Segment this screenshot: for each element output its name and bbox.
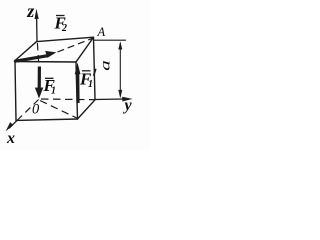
force F2 arrow (along top-face diagonal toward A): [15, 51, 57, 61]
x-axis arrow part: [6, 120, 18, 132]
z-axis: [35, 9, 39, 41]
label F1 with overbar: [43, 76, 57, 97]
svg-text:a: a: [97, 60, 113, 71]
svg-text:1: 1: [88, 79, 93, 90]
cube hidden rear-left vertical edge (dashed): [37, 43, 38, 66]
line of action of F2 toward A (dashed): [58, 38, 93, 52]
y-axis arrow part: [95, 97, 133, 102]
svg-text:A: A: [97, 25, 106, 39]
label F1' with overbar and prime: [79, 69, 96, 90]
label F2 with overbar: [54, 13, 68, 34]
x-axis hidden part inside cube (dashed): [18, 100, 39, 120]
cube rear-right vertical edge: [94, 38, 96, 100]
cube front-bottom edge: [16, 119, 78, 120]
cube front-top edge: [15, 61, 77, 64]
dimension line a (vertical, arrows both ends): [118, 41, 122, 98]
cube front-right vertical edge: [76, 62, 78, 119]
force F1' arrow (up, at front-top-right corner): [75, 63, 81, 104]
svg-text:x: x: [6, 130, 15, 147]
svg-text:y: y: [123, 97, 133, 114]
cube hidden rear-bottom edge / y-axis hidden part (dashed): [41, 98, 95, 101]
cube top-right edge: [76, 37, 94, 62]
cube bottom-right edge: [78, 100, 96, 119]
force F1 arrow (down, applied at O): [35, 67, 43, 99]
cube front-left vertical edge: [15, 62, 16, 121]
cube top-rear edge: [37, 37, 94, 41]
bottom face diagonal O-B (dashed): [40, 101, 77, 119]
dimension extension line at A level: [94, 39, 127, 41]
svg-text:2: 2: [61, 23, 67, 34]
svg-text:z: z: [26, 1, 34, 21]
svg-text:1: 1: [51, 86, 56, 97]
svg-text:0: 0: [32, 102, 40, 118]
cube top-left edge: [15, 41, 38, 61]
